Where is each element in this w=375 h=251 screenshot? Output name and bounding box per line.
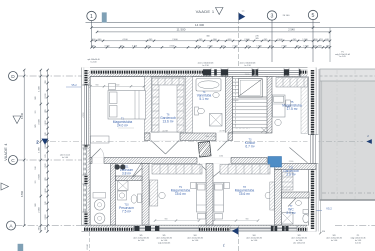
svg-text:4 300: 4 300 <box>169 45 175 47</box>
svg-text:h= 100: h= 100 <box>91 62 97 64</box>
svg-text:2 400: 2 400 <box>172 39 178 41</box>
bed bedroom20 <box>214 183 224 213</box>
dim chain top 1 <box>92 40 331 42</box>
svg-text:15.6 m²: 15.6 m² <box>239 192 251 196</box>
wall pesuruum/bedroom19 <box>142 164 149 226</box>
svg-text:h= 1.00: h= 1.00 <box>251 240 257 242</box>
svg-text:4 100: 4 100 <box>122 39 128 41</box>
svg-text:h= 1.00: h= 1.00 <box>62 157 68 159</box>
right vertical dim stub <box>329 28 331 62</box>
svg-text:5: 5 <box>312 13 315 19</box>
window top wall 289-299 <box>289 68 299 76</box>
svg-text:900: 900 <box>246 219 249 221</box>
terrace slab (gray) <box>320 69 375 200</box>
window left wall 148-175 <box>82 148 87 175</box>
wall garderoob/wc <box>282 192 310 198</box>
svg-text:2.6 m²: 2.6 m² <box>286 173 296 177</box>
door gap corridor top <box>150 133 180 141</box>
svg-text:20 100: 20 100 <box>283 15 290 17</box>
svg-text:V5.2: V5.2 <box>326 207 332 211</box>
staircase <box>233 77 268 134</box>
wc sink <box>296 201 302 206</box>
wardrobe row bedroom20 <box>220 165 270 175</box>
bed bedroom19 <box>197 183 207 213</box>
svg-text:h= 1.00: h= 1.00 <box>138 240 144 242</box>
nightstand bedroom5 <box>286 100 291 107</box>
wc door leaf <box>288 198 296 207</box>
section line 2-2 <box>50 140 363 142</box>
dim line left inner <box>47 70 49 232</box>
svg-text:uks 8M: uks 8M <box>162 131 168 133</box>
svg-text:h= 1.50: h= 1.50 <box>202 65 208 67</box>
wardrobe row bedroom5 <box>276 78 308 88</box>
wall utility left <box>111 164 116 226</box>
grid bubble 1 <box>87 11 96 20</box>
window top wall 211-221 <box>211 68 221 76</box>
bathtub <box>196 79 221 92</box>
svg-text:VAADE 4: VAADE 4 <box>4 143 8 160</box>
svg-text:3 300: 3 300 <box>38 118 40 124</box>
svg-text:2: 2 <box>36 140 39 145</box>
garderoob2 shelves <box>282 172 293 190</box>
svg-text:6 550: 6 550 <box>21 190 24 197</box>
inner dim texts top rooms <box>91 85 145 87</box>
wardrobe bedroom20 right <box>270 182 275 210</box>
svg-text:uks 8M: uks 8M <box>219 131 225 133</box>
steel rect bottom left <box>18 244 24 251</box>
svg-text:2 300: 2 300 <box>281 45 287 47</box>
pesuruum sink <box>118 191 127 200</box>
svg-text:2 200: 2 200 <box>207 45 213 47</box>
svg-text:1 300: 1 300 <box>115 85 120 87</box>
bedroom1 rug <box>118 127 134 129</box>
svg-text:8 148: 8 148 <box>87 244 89 250</box>
svg-text:h= 1.05: h= 1.05 <box>339 56 345 58</box>
section flag 1 top (steel rect) <box>102 12 107 22</box>
nightstand bedroom1 left <box>109 84 116 90</box>
svg-text:3 600: 3 600 <box>38 173 40 179</box>
svg-text:2 100: 2 100 <box>45 93 47 99</box>
mid wall door gap <box>197 157 231 164</box>
terrace dashed line bottom <box>322 192 375 194</box>
window left wall 184-212 <box>82 184 87 212</box>
inner dims bottom bedrooms <box>155 220 199 222</box>
window bottom wall 159-199 <box>159 226 199 231</box>
window bottom wall 134-159 <box>134 226 159 231</box>
view triangle left <box>13 116 21 124</box>
bed bedroom5 <box>273 95 286 117</box>
top exterior wall <box>82 68 317 77</box>
svg-text:h= 1.00: h= 1.00 <box>192 240 198 242</box>
svg-text:1 300: 1 300 <box>38 85 40 91</box>
section flag 1-1 navy <box>239 13 246 21</box>
bench bedroom20 <box>215 214 223 220</box>
svg-text:C: C <box>11 158 15 164</box>
grid bubble A <box>7 221 16 230</box>
pesuruum door leaf <box>133 168 142 177</box>
terrace right edge extension <box>319 201 321 234</box>
utility washer dryer <box>94 200 105 211</box>
grid bubble 3 <box>267 11 276 20</box>
terrace left edge <box>319 69 321 201</box>
grid line top <box>86 21 321 23</box>
top wall window posts <box>203 69 211 75</box>
svg-text:310: 310 <box>322 231 325 233</box>
door gap bathroom <box>216 133 228 141</box>
chair bedroom5 <box>275 119 281 125</box>
nightstand bedroom20 <box>224 183 230 189</box>
pesuruum toilet <box>138 194 142 203</box>
svg-text:8 400: 8 400 <box>21 112 24 119</box>
section flag 1 bottom <box>232 227 239 234</box>
right wall interior finish hatch <box>301 77 308 134</box>
right exterior wall <box>308 68 319 232</box>
svg-text:V5.2: V5.2 <box>71 83 77 87</box>
svg-text:1 530: 1 530 <box>302 39 308 41</box>
svg-text:14 300: 14 300 <box>195 23 205 27</box>
wall bath/stair <box>226 77 233 134</box>
terrace top band <box>320 69 375 81</box>
stool bedroom19 <box>159 192 165 198</box>
bottom exterior wall <box>82 225 317 232</box>
svg-text:2 400: 2 400 <box>245 74 250 76</box>
door leaf bedroom1-utility <box>91 149 101 159</box>
wardrobe row bedroom19 <box>152 165 202 175</box>
svg-text:24.0 m²: 24.0 m² <box>117 124 129 128</box>
sauna stove <box>115 164 120 169</box>
svg-text:la 1.05: la 1.05 <box>355 243 361 245</box>
bench bedroom19 <box>198 214 206 220</box>
window bottom wall 277-297 <box>277 226 297 231</box>
grid bubble 5 <box>308 10 317 19</box>
sauna door leaf <box>131 163 142 179</box>
svg-text:900: 900 <box>165 219 168 221</box>
window bottom wall 230-271 <box>230 226 271 231</box>
svg-text:2 960: 2 960 <box>38 206 40 212</box>
svg-text:13.6 m²: 13.6 m² <box>162 120 174 124</box>
dresser bedroom1 <box>91 136 110 143</box>
grid bubble D <box>9 72 18 81</box>
dim line 14300 <box>92 27 375 29</box>
svg-text:2 540: 2 540 <box>288 28 295 32</box>
dim chain top 2 <box>92 46 331 48</box>
garderoob shelves <box>152 78 184 132</box>
svg-text:1 900: 1 900 <box>256 45 262 47</box>
view triangle top <box>216 8 224 15</box>
wall garderoob/bath <box>186 77 193 134</box>
stair walk line <box>235 79 237 128</box>
mid horizontal wall west <box>90 158 267 164</box>
blue wall element <box>268 157 282 168</box>
bath sink <box>213 92 219 97</box>
dim line left outer <box>23 70 25 226</box>
svg-text:2.0 m²: 2.0 m² <box>286 211 296 215</box>
wardrobe bedroom19 left <box>150 180 158 206</box>
svg-text:2 060 + 2 060: 2 060 + 2 060 <box>204 136 215 138</box>
dim line left mid <box>40 70 42 232</box>
svg-text:1 400: 1 400 <box>45 188 47 194</box>
svg-text:3.8 m²: 3.8 m² <box>122 172 132 176</box>
bottom wall window posts <box>135 226 140 231</box>
svg-text:2 400: 2 400 <box>277 39 283 41</box>
svg-text:11 500: 11 500 <box>177 28 186 32</box>
terrace dashed verticals <box>336 70 338 199</box>
wall stair/bedroom5 <box>265 77 272 134</box>
svg-text:17.5 m²: 17.5 m² <box>286 107 298 111</box>
svg-text:2 260: 2 260 <box>45 214 47 220</box>
wall bedroom1/garderoob <box>145 77 152 134</box>
door leaves corridor-garderoob <box>151 141 166 155</box>
svg-text:h= 1.00: h= 1.00 <box>331 240 337 242</box>
svg-text:2 200: 2 200 <box>232 45 238 47</box>
svg-text:D: D <box>11 74 15 80</box>
svg-text:uks 1.01x2.05: uks 1.01x2.05 <box>293 243 305 245</box>
terrace bottom edge <box>320 199 375 201</box>
shower bath <box>210 114 223 127</box>
svg-text:2 060: 2 060 <box>219 156 223 158</box>
svg-text:2 400: 2 400 <box>244 39 250 41</box>
section flag 2 right <box>366 139 372 144</box>
stool bedroom20 <box>265 192 271 198</box>
svg-text:h= 1.50: h= 1.50 <box>244 65 250 67</box>
bed bedroom1 <box>108 91 146 120</box>
door leaves mid wall <box>199 164 214 177</box>
window top wall 228-252 <box>228 68 252 76</box>
terrace door leaf corridor <box>290 148 308 163</box>
stair break line2 <box>239 96 268 98</box>
svg-text:VAADE 1: VAADE 1 <box>196 9 215 14</box>
wc toilet <box>303 210 309 214</box>
wall sauna/pesuruum <box>116 176 143 181</box>
mid horizontal wall east <box>275 164 317 170</box>
large window left wall V5.2 <box>82 85 90 145</box>
svg-text:1 400: 1 400 <box>45 120 47 126</box>
svg-text:7.5 m²: 7.5 m² <box>122 210 132 214</box>
svg-text:1: 1 <box>90 14 93 20</box>
svg-text:900: 900 <box>96 85 99 87</box>
grid bubble C <box>9 156 18 165</box>
svg-text:2 300: 2 300 <box>289 161 294 163</box>
nightstand bedroom19 <box>191 183 197 189</box>
svg-text:1 300: 1 300 <box>303 45 309 47</box>
bottom wall solid mid <box>199 225 230 231</box>
svg-text:valg 1.01x0.05: valg 1.01x0.05 <box>158 243 170 245</box>
svg-text:15.6 m²: 15.6 m² <box>175 192 187 196</box>
svg-text:3: 3 <box>271 14 274 20</box>
dim line 11500 <box>97 31 330 33</box>
bath toilet <box>195 107 199 115</box>
left view triangle bottom <box>1 183 9 190</box>
dashed line below building <box>89 232 91 251</box>
wc shower <box>282 213 294 225</box>
svg-text:2 660: 2 660 <box>166 74 171 76</box>
svg-text:1 980: 1 980 <box>38 146 40 152</box>
wall bedrooms 19/20 <box>206 164 213 226</box>
wall bedroom20/garderoob-wc <box>275 170 282 226</box>
left exterior wall <box>82 68 91 232</box>
svg-text:6.7 m²: 6.7 m² <box>245 145 255 149</box>
svg-text:2 400: 2 400 <box>132 45 138 47</box>
svg-text:3 000: 3 000 <box>104 45 110 47</box>
terrace door right wall <box>308 135 318 164</box>
pesuruum shower <box>118 181 129 191</box>
wall under garderoob-bath (corridor top) <box>145 133 233 141</box>
svg-text:1 520: 1 520 <box>45 163 47 169</box>
svg-text:4 050: 4 050 <box>83 112 85 118</box>
svg-text:5.1 m²: 5.1 m² <box>199 97 209 101</box>
svg-text:2 260: 2 260 <box>45 143 47 149</box>
chimney shaft <box>198 141 211 157</box>
stair break diagonal <box>239 80 262 97</box>
window top wall 258-284 <box>258 68 284 76</box>
